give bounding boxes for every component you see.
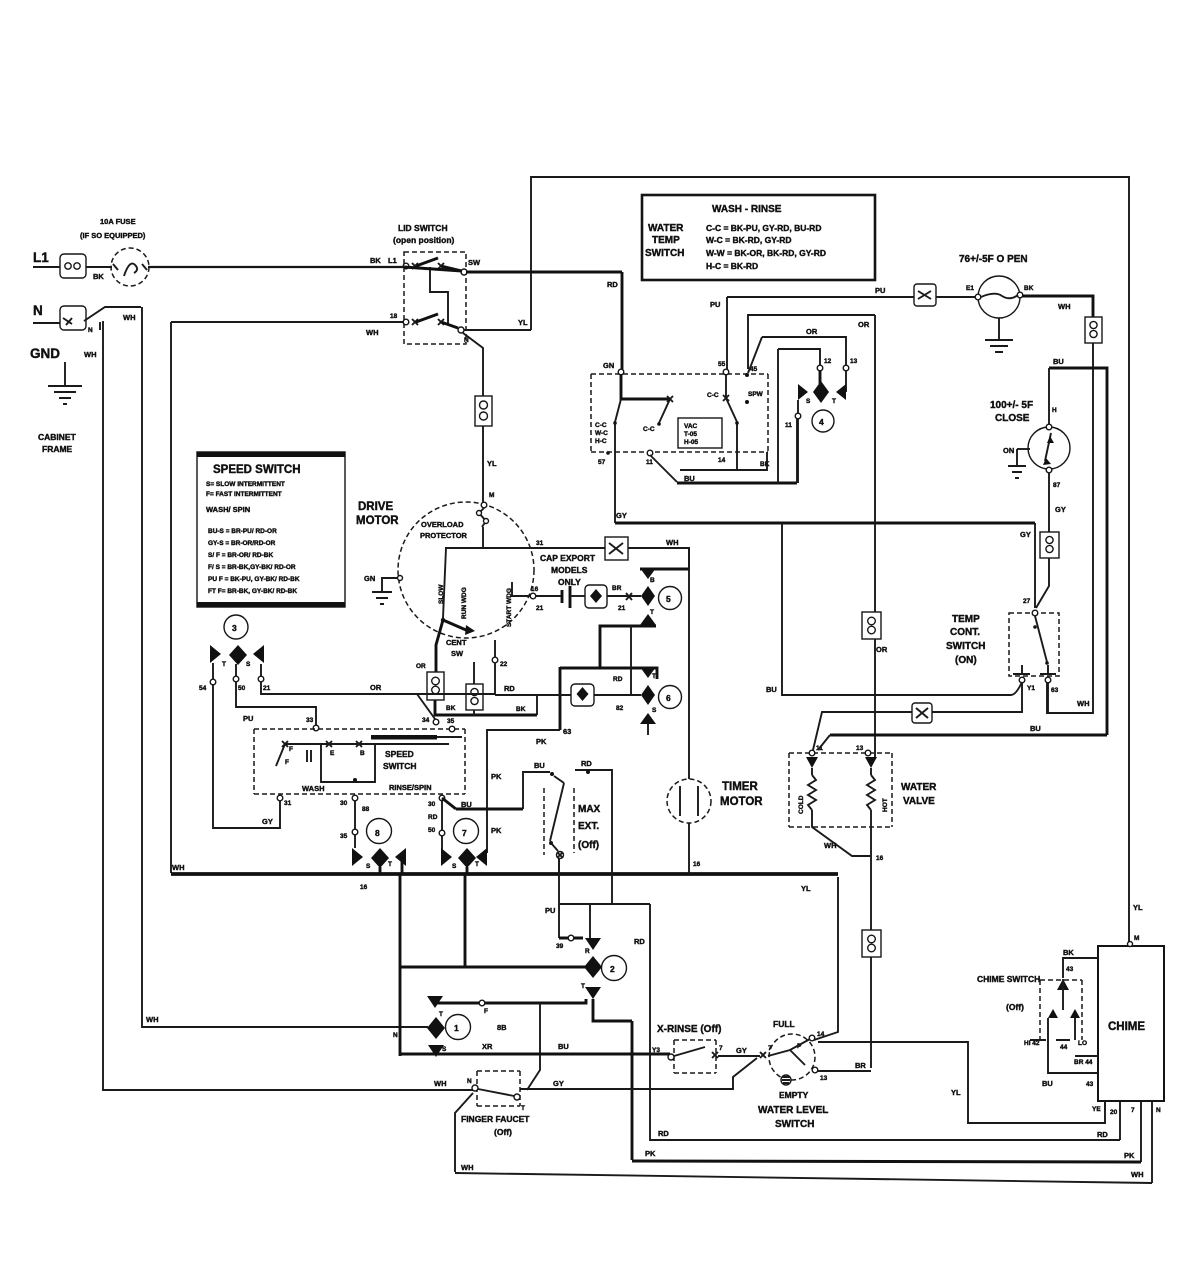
svg-text:PK: PK bbox=[1124, 1151, 1135, 1160]
svg-text:PROTECTOR: PROTECTOR bbox=[420, 531, 468, 540]
svg-text:11: 11 bbox=[646, 459, 653, 466]
svg-text:16: 16 bbox=[531, 586, 539, 593]
svg-text:BU: BU bbox=[1030, 724, 1041, 733]
svg-text:BR: BR bbox=[612, 585, 622, 592]
svg-text:WH: WH bbox=[84, 350, 97, 359]
svg-text:1: 1 bbox=[454, 1023, 459, 1033]
svg-text:BK: BK bbox=[1024, 285, 1034, 292]
svg-text:16: 16 bbox=[693, 861, 701, 868]
svg-text:S: S bbox=[452, 863, 457, 870]
svg-text:WH: WH bbox=[146, 1015, 159, 1024]
svg-text:76+/-5F O PEN: 76+/-5F O PEN bbox=[959, 254, 1028, 265]
svg-text:C-C = BK-PU, GY-RD, BU-RD: C-C = BK-PU, GY-RD, BU-RD bbox=[706, 223, 821, 233]
svg-text:FT F= BR-BK, GY-BK/ RD-BK: FT F= BR-BK, GY-BK/ RD-BK bbox=[208, 588, 297, 595]
svg-text:C-C: C-C bbox=[707, 392, 719, 399]
svg-text:T: T bbox=[521, 1105, 525, 1112]
svg-text:C-C: C-C bbox=[595, 422, 607, 429]
svg-text:54: 54 bbox=[199, 685, 207, 692]
svg-text:T: T bbox=[475, 861, 479, 868]
svg-text:(IF SO EQUIPPED): (IF SO EQUIPPED) bbox=[80, 231, 146, 240]
svg-text:34: 34 bbox=[422, 717, 430, 724]
svg-text:WASH: WASH bbox=[302, 784, 325, 793]
svg-text:TIMER: TIMER bbox=[722, 781, 758, 793]
svg-text:N: N bbox=[393, 1032, 398, 1039]
svg-text:C-C: C-C bbox=[643, 426, 655, 433]
svg-text:OVERLOAD: OVERLOAD bbox=[421, 520, 464, 529]
svg-text:63: 63 bbox=[1051, 687, 1059, 694]
svg-text:SW: SW bbox=[468, 258, 481, 267]
svg-text:21: 21 bbox=[618, 605, 626, 612]
svg-text:H-05: H-05 bbox=[684, 439, 698, 446]
svg-text:RD: RD bbox=[613, 676, 623, 683]
svg-text:OR: OR bbox=[416, 663, 426, 670]
svg-text:GY: GY bbox=[736, 1046, 747, 1055]
svg-text:CENT: CENT bbox=[446, 638, 467, 647]
svg-text:BK: BK bbox=[760, 461, 770, 468]
svg-text:PU: PU bbox=[545, 906, 555, 915]
svg-text:PU: PU bbox=[875, 286, 885, 295]
svg-text:RD: RD bbox=[607, 280, 618, 289]
svg-text:YL: YL bbox=[801, 884, 811, 893]
svg-text:BK: BK bbox=[93, 272, 104, 281]
svg-text:27: 27 bbox=[1023, 598, 1031, 605]
svg-text:50: 50 bbox=[428, 827, 436, 834]
svg-text:87: 87 bbox=[1053, 482, 1061, 489]
svg-text:88: 88 bbox=[362, 806, 370, 813]
svg-text:12: 12 bbox=[824, 358, 832, 365]
svg-text:7: 7 bbox=[719, 1045, 723, 1052]
svg-text:SWITCH: SWITCH bbox=[645, 248, 684, 259]
svg-text:11: 11 bbox=[785, 422, 792, 429]
svg-text:35: 35 bbox=[447, 718, 455, 725]
svg-text:(Off): (Off) bbox=[1006, 1002, 1024, 1012]
svg-text:CAP EXPORT: CAP EXPORT bbox=[540, 553, 596, 563]
svg-text:43: 43 bbox=[1066, 966, 1074, 973]
svg-text:30: 30 bbox=[340, 800, 348, 807]
svg-text:SPEED SWITCH: SPEED SWITCH bbox=[213, 464, 301, 476]
svg-text:SWITCH: SWITCH bbox=[946, 641, 985, 652]
svg-text:4: 4 bbox=[819, 417, 824, 427]
svg-text:7: 7 bbox=[1131, 1107, 1135, 1114]
svg-text:WH: WH bbox=[434, 1079, 447, 1088]
svg-text:R: R bbox=[585, 948, 590, 955]
svg-text:BU: BU bbox=[534, 761, 545, 770]
svg-text:GY: GY bbox=[1020, 530, 1031, 539]
svg-text:H-C: H-C bbox=[595, 438, 607, 445]
svg-text:WATER: WATER bbox=[901, 782, 937, 793]
svg-text:X-RINSE (Off): X-RINSE (Off) bbox=[657, 1024, 721, 1035]
svg-text:13: 13 bbox=[856, 745, 864, 752]
svg-text:ONLY: ONLY bbox=[558, 577, 581, 587]
svg-text:PK: PK bbox=[536, 737, 547, 746]
svg-text:BK: BK bbox=[1063, 948, 1074, 957]
svg-text:WATER LEVEL: WATER LEVEL bbox=[758, 1105, 828, 1116]
svg-text:YL: YL bbox=[951, 1088, 961, 1097]
svg-text:WH: WH bbox=[366, 328, 379, 337]
svg-text:CHIME SWITCH: CHIME SWITCH bbox=[977, 974, 1040, 984]
svg-text:YL: YL bbox=[1133, 903, 1143, 912]
svg-text:(open position): (open position) bbox=[393, 235, 455, 245]
svg-text:RD: RD bbox=[581, 759, 592, 768]
svg-text:E1: E1 bbox=[966, 285, 974, 292]
svg-text:F= FAST INTERMITTENT: F= FAST INTERMITTENT bbox=[206, 491, 282, 498]
svg-text:OR: OR bbox=[370, 683, 382, 692]
svg-text:8B: 8B bbox=[497, 1023, 507, 1032]
svg-text:W-C = BK-RD, GY-RD: W-C = BK-RD, GY-RD bbox=[706, 235, 792, 245]
svg-text:LID SWITCH: LID SWITCH bbox=[398, 223, 448, 233]
svg-text:YE: YE bbox=[1092, 1106, 1101, 1113]
svg-text:GY: GY bbox=[262, 817, 273, 826]
svg-text:T: T bbox=[652, 673, 656, 680]
svg-text:BR 44: BR 44 bbox=[1074, 1059, 1093, 1066]
svg-text:S: S bbox=[806, 398, 811, 405]
svg-text:PU: PU bbox=[243, 714, 253, 723]
svg-text:FINGER FAUCET: FINGER FAUCET bbox=[461, 1114, 530, 1124]
svg-text:SW: SW bbox=[451, 649, 464, 658]
svg-text:SWITCH: SWITCH bbox=[775, 1119, 814, 1130]
svg-text:WATER: WATER bbox=[648, 223, 684, 234]
svg-text:T: T bbox=[439, 1011, 443, 1018]
svg-text:20: 20 bbox=[1110, 1109, 1118, 1116]
svg-text:PU F = BK-PU, GY-BK/ RD-BK: PU F = BK-PU, GY-BK/ RD-BK bbox=[208, 576, 300, 583]
svg-text:B: B bbox=[650, 577, 655, 584]
svg-text:MOTOR: MOTOR bbox=[356, 515, 399, 527]
svg-text:5: 5 bbox=[666, 594, 671, 604]
svg-text:(Off): (Off) bbox=[494, 1127, 512, 1137]
svg-text:RD: RD bbox=[1097, 1130, 1108, 1139]
svg-text:S: S bbox=[442, 1046, 447, 1053]
svg-text:8: 8 bbox=[375, 828, 380, 838]
svg-text:14: 14 bbox=[718, 457, 726, 464]
svg-text:31: 31 bbox=[284, 800, 292, 807]
svg-text:MOTOR: MOTOR bbox=[720, 796, 763, 808]
svg-text:39: 39 bbox=[556, 943, 564, 950]
svg-text:WH: WH bbox=[172, 863, 185, 872]
svg-text:43: 43 bbox=[1086, 1081, 1094, 1088]
svg-text:E: E bbox=[330, 750, 335, 757]
svg-text:SPW: SPW bbox=[748, 391, 764, 398]
svg-text:BU: BU bbox=[766, 685, 777, 694]
svg-text:XR: XR bbox=[482, 1042, 493, 1051]
svg-text:PK: PK bbox=[645, 1149, 656, 1158]
svg-text:GND: GND bbox=[30, 346, 60, 361]
svg-text:GN: GN bbox=[364, 574, 375, 583]
svg-text:16: 16 bbox=[360, 884, 368, 891]
svg-text:W-C: W-C bbox=[595, 430, 608, 437]
svg-text:GY: GY bbox=[616, 511, 627, 520]
svg-text:VAC: VAC bbox=[684, 423, 698, 430]
svg-text:SLOW: SLOW bbox=[438, 584, 445, 604]
svg-text:CLOSE: CLOSE bbox=[995, 413, 1030, 424]
svg-text:RD: RD bbox=[634, 937, 645, 946]
svg-text:22: 22 bbox=[500, 661, 508, 668]
svg-text:2: 2 bbox=[610, 964, 615, 974]
svg-text:BU: BU bbox=[558, 1042, 569, 1051]
svg-text:16: 16 bbox=[876, 855, 884, 862]
svg-text:CHIME: CHIME bbox=[1108, 1021, 1145, 1033]
svg-text:F: F bbox=[289, 746, 293, 753]
svg-text:SWITCH: SWITCH bbox=[383, 761, 417, 771]
svg-text:H: H bbox=[1052, 407, 1057, 414]
svg-text:WH: WH bbox=[461, 1163, 474, 1172]
svg-text:BU-S = BR-PU/ RD-OR: BU-S = BR-PU/ RD-OR bbox=[208, 528, 277, 535]
svg-text:H-C = BK-RD: H-C = BK-RD bbox=[706, 261, 758, 271]
svg-text:MODELS: MODELS bbox=[551, 565, 588, 575]
svg-text:HI 42: HI 42 bbox=[1024, 1040, 1040, 1047]
svg-text:PK: PK bbox=[491, 772, 502, 781]
svg-text:FULL: FULL bbox=[773, 1019, 795, 1029]
svg-text:OR: OR bbox=[806, 327, 818, 336]
svg-text:100+/- 5F: 100+/- 5F bbox=[990, 400, 1033, 411]
svg-text:N: N bbox=[467, 1078, 472, 1085]
svg-text:DRIVE: DRIVE bbox=[358, 501, 393, 513]
svg-text:BK: BK bbox=[516, 706, 526, 713]
svg-text:GY: GY bbox=[1055, 505, 1066, 514]
svg-text:31: 31 bbox=[536, 540, 544, 547]
svg-text:PU: PU bbox=[710, 300, 720, 309]
svg-text:OR: OR bbox=[858, 320, 870, 329]
svg-text:RUN WDG: RUN WDG bbox=[461, 587, 468, 619]
svg-text:13: 13 bbox=[820, 1075, 828, 1082]
svg-text:L1: L1 bbox=[33, 250, 49, 265]
svg-text:Y3: Y3 bbox=[652, 1047, 660, 1054]
svg-text:WASH - RINSE: WASH - RINSE bbox=[712, 204, 782, 215]
svg-text:7: 7 bbox=[462, 828, 467, 838]
svg-text:GY-S = BR-OR/RD-OR: GY-S = BR-OR/RD-OR bbox=[208, 540, 276, 547]
svg-text:VALVE: VALVE bbox=[903, 796, 935, 807]
svg-text:57: 57 bbox=[598, 459, 606, 466]
svg-text:63: 63 bbox=[563, 727, 571, 736]
svg-text:PK: PK bbox=[491, 826, 502, 835]
svg-text:Y1: Y1 bbox=[1027, 685, 1035, 692]
svg-text:WH: WH bbox=[1058, 302, 1071, 311]
svg-text:YL: YL bbox=[518, 318, 528, 327]
svg-text:30: 30 bbox=[428, 801, 436, 808]
svg-text:RD: RD bbox=[658, 1129, 669, 1138]
svg-text:T: T bbox=[650, 609, 654, 616]
svg-text:RD: RD bbox=[428, 814, 438, 821]
svg-text:WH: WH bbox=[824, 841, 837, 850]
svg-text:N: N bbox=[1156, 1107, 1161, 1114]
svg-text:N: N bbox=[88, 327, 93, 334]
svg-text:WH: WH bbox=[1131, 1170, 1144, 1179]
svg-text:10A FUSE: 10A FUSE bbox=[100, 217, 136, 226]
svg-text:YL: YL bbox=[487, 459, 497, 468]
svg-text:SPEED: SPEED bbox=[385, 749, 414, 759]
svg-text:M: M bbox=[489, 492, 494, 499]
svg-text:F/ S = BR-BK,GY-BK/ RD-OR: F/ S = BR-BK,GY-BK/ RD-OR bbox=[208, 564, 296, 571]
svg-text:BK: BK bbox=[446, 705, 456, 712]
svg-text:OR: OR bbox=[876, 645, 888, 654]
svg-text:18: 18 bbox=[390, 313, 398, 320]
svg-text:BU: BU bbox=[1053, 357, 1064, 366]
svg-text:21: 21 bbox=[263, 685, 271, 692]
svg-text:S/ F = BR-OR/ RD-BK: S/ F = BR-OR/ RD-BK bbox=[208, 552, 273, 559]
svg-text:S: S bbox=[246, 661, 251, 668]
svg-text:M: M bbox=[1134, 935, 1139, 942]
svg-text:EMPTY: EMPTY bbox=[779, 1090, 809, 1100]
svg-text:N: N bbox=[33, 303, 43, 318]
svg-text:TEMP: TEMP bbox=[652, 235, 680, 246]
svg-text:S: S bbox=[366, 863, 371, 870]
svg-text:BU: BU bbox=[1042, 1079, 1053, 1088]
svg-text:T: T bbox=[581, 983, 585, 990]
svg-text:ON: ON bbox=[1003, 446, 1014, 455]
svg-text:44: 44 bbox=[1060, 1044, 1068, 1051]
svg-text:BK: BK bbox=[370, 256, 381, 265]
svg-text:13: 13 bbox=[850, 358, 858, 365]
svg-text:50: 50 bbox=[238, 685, 246, 692]
svg-text:T-05: T-05 bbox=[684, 431, 697, 438]
svg-text:35: 35 bbox=[340, 833, 348, 840]
svg-text:WH: WH bbox=[123, 313, 136, 322]
svg-text:T: T bbox=[222, 661, 226, 668]
svg-text:(Off): (Off) bbox=[578, 840, 599, 851]
svg-text:F: F bbox=[484, 1008, 488, 1015]
svg-text:RINSE/SPIN: RINSE/SPIN bbox=[389, 783, 432, 792]
svg-text:EXT.: EXT. bbox=[578, 821, 599, 832]
svg-text:WH: WH bbox=[666, 538, 679, 547]
svg-text:3: 3 bbox=[232, 623, 237, 633]
svg-text:T: T bbox=[388, 861, 392, 868]
svg-text:WASH/ SPIN: WASH/ SPIN bbox=[206, 505, 250, 514]
svg-text:LO: LO bbox=[1078, 1040, 1087, 1047]
svg-text:W-W = BK-OR, BK-RD, GY-RD: W-W = BK-OR, BK-RD, GY-RD bbox=[706, 248, 826, 258]
svg-text:F: F bbox=[285, 759, 289, 766]
svg-text:55: 55 bbox=[718, 361, 726, 368]
svg-text:BR: BR bbox=[855, 1061, 866, 1070]
svg-text:21: 21 bbox=[536, 605, 544, 612]
svg-text:CONT.: CONT. bbox=[950, 627, 980, 638]
svg-text:TEMP: TEMP bbox=[952, 614, 980, 625]
svg-text:RD: RD bbox=[504, 684, 515, 693]
svg-text:WH: WH bbox=[1077, 699, 1090, 708]
svg-text:(ON): (ON) bbox=[955, 655, 977, 666]
svg-text:T: T bbox=[832, 398, 836, 405]
svg-text:MAX: MAX bbox=[578, 804, 601, 815]
svg-text:S= SLOW INTERMITTENT: S= SLOW INTERMITTENT bbox=[206, 481, 285, 488]
svg-text:82: 82 bbox=[616, 705, 624, 712]
svg-text:FRAME: FRAME bbox=[42, 444, 73, 454]
svg-text:L1: L1 bbox=[388, 256, 397, 265]
svg-text:B: B bbox=[360, 750, 365, 757]
svg-text:COLD: COLD bbox=[798, 795, 805, 814]
svg-text:HOT: HOT bbox=[882, 798, 889, 812]
svg-text:S: S bbox=[652, 707, 657, 714]
svg-text:GY: GY bbox=[553, 1079, 564, 1088]
svg-text:CABINET: CABINET bbox=[38, 432, 77, 442]
svg-text:33: 33 bbox=[306, 717, 314, 724]
svg-text:6: 6 bbox=[666, 693, 671, 703]
svg-text:GN: GN bbox=[603, 361, 614, 370]
